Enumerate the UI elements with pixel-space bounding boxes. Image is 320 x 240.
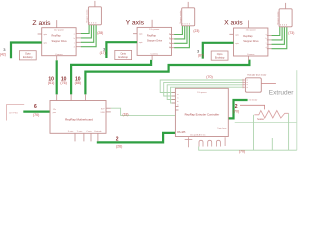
svg-text:RepRap Motherboard: RepRap Motherboard bbox=[65, 118, 93, 122]
svg-text:(70): (70) bbox=[206, 75, 212, 79]
svg-text:tx: tx bbox=[177, 100, 178, 103]
svg-text:(73): (73) bbox=[288, 31, 294, 35]
svg-text:Extruder drive motor: Extruder drive motor bbox=[248, 73, 267, 76]
svg-text:X axis: X axis bbox=[68, 131, 73, 133]
svg-text:(28): (28) bbox=[97, 31, 103, 35]
svg-text:(17): (17) bbox=[100, 51, 106, 55]
svg-text:(23): (23) bbox=[193, 29, 199, 33]
svg-text:(42): (42) bbox=[0, 52, 6, 56]
svg-text:Z axis: Z axis bbox=[86, 131, 91, 133]
svg-text:12v gnd A B ht fan: 12v gnd A B ht fan bbox=[190, 134, 205, 137]
svg-text:12v: 12v bbox=[53, 109, 56, 111]
svg-text:X axis: X axis bbox=[224, 19, 243, 26]
svg-text:RepRap Extruder Controller: RepRap Extruder Controller bbox=[185, 112, 220, 116]
svg-text:rs: rs bbox=[177, 98, 179, 100]
svg-text:Extrude: Extrude bbox=[95, 130, 103, 133]
svg-text:(70): (70) bbox=[239, 150, 245, 154]
svg-text:(70): (70) bbox=[33, 113, 39, 117]
svg-text:ext motor: ext motor bbox=[249, 98, 258, 101]
svg-text:Y axis: Y axis bbox=[77, 131, 82, 133]
svg-text:3: 3 bbox=[3, 47, 6, 52]
svg-text:12V PSU: 12V PSU bbox=[9, 113, 18, 115]
svg-text:12v power: 12v power bbox=[197, 92, 207, 94]
svg-text:2: 2 bbox=[116, 136, 119, 142]
svg-text:Extruder: Extruder bbox=[269, 89, 294, 96]
svg-text:pwr: pwr bbox=[53, 112, 57, 114]
svg-text:rs: rs bbox=[177, 94, 179, 96]
svg-text:(18): (18) bbox=[123, 113, 129, 117]
svg-text:Twin fans: Twin fans bbox=[217, 128, 227, 130]
svg-text:(70): (70) bbox=[233, 109, 239, 113]
svg-text:(87): (87) bbox=[198, 54, 204, 58]
svg-text:Z axis: Z axis bbox=[32, 20, 51, 27]
svg-text:heater: heater bbox=[257, 117, 264, 121]
svg-text:(76): (76) bbox=[60, 81, 66, 85]
svg-text:6: 6 bbox=[34, 104, 37, 110]
svg-text:(88): (88) bbox=[75, 81, 81, 85]
svg-text:Y axis: Y axis bbox=[126, 19, 145, 26]
svg-text:RS-485: RS-485 bbox=[177, 131, 186, 134]
svg-text:rx: rx bbox=[177, 105, 179, 107]
svg-text:(61): (61) bbox=[48, 81, 54, 85]
svg-text:(26): (26) bbox=[116, 145, 122, 149]
